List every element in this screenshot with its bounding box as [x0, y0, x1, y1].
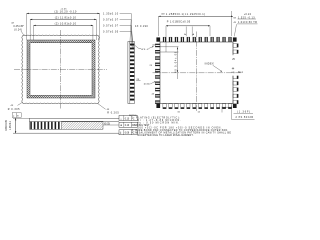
top view: ceramic body outline (scalloped castellations): [22, 35, 99, 104]
svg-text:WF-4: WF-4: [141, 49, 149, 51]
height dim 0.57±0.05: [103, 31, 134, 51]
svg-text:0.10: 0.10: [125, 125, 130, 127]
left side plating thickness callout: [144, 81, 156, 85]
side view top surface lines: [30, 118, 120, 129]
svg-text:No.1: No.1: [238, 72, 244, 74]
svg-text:0.57±0.05: 0.57±0.05: [103, 31, 119, 34]
dimension D2: [30, 16, 96, 40]
svg-text:4X 0.190: 4X 0.190: [135, 25, 148, 28]
dimension D1 (body width 10.20): [27, 8, 100, 40]
svg-text:0.57±0.07: 0.57±0.07: [103, 25, 119, 28]
interior extension lines: [160, 47, 179, 52]
left side pin number labels: [150, 44, 156, 95]
right terminals x10: [233, 44, 238, 104]
pitch ticks at pins: [185, 27, 194, 37]
svg-text:(1.36F): (1.36F): [237, 111, 251, 114]
top view centerlines: [14, 30, 107, 109]
corner metallization tabs: [156, 37, 236, 108]
label mask over right terminals: [231, 55, 248, 75]
feature control frame 2: [119, 122, 137, 127]
svg-text:0.08: 0.08: [125, 133, 130, 135]
svg-text:P 1.01BSC±0.05: P 1.01BSC±0.05: [167, 21, 191, 24]
side view molded body hatch: [62, 122, 104, 130]
bottom-right corner radius label: [98, 104, 120, 115]
svg-text:(2) 10.81±0.10: (2) 10.81±0.10: [55, 22, 77, 26]
feature control frame 1: [119, 116, 137, 121]
side section (vertical strip): [128, 42, 134, 104]
svg-text:1.525 -0.13: 1.525 -0.13: [238, 16, 255, 19]
svg-text:⌓: ⌓: [120, 117, 122, 120]
svg-text:R 0.305: R 0.305: [8, 108, 20, 111]
left terminals x10: [155, 44, 160, 104]
strip side label 2X: [136, 79, 140, 81]
svg-text:2 P0.50±2R: 2 P0.50±2R: [236, 116, 254, 119]
side height dimension: [5, 118, 30, 133]
svg-text:(2) 10.20 -0.10: (2) 10.20 -0.10: [54, 10, 76, 14]
svg-text:INDEX: INDEX: [205, 62, 214, 65]
top view: metallized seal ring (hatched band): [27, 40, 95, 98]
svg-text:4X 5.04±.05: 4X 5.04±.05: [174, 51, 177, 73]
INDEX label: [205, 62, 223, 72]
svg-text:0.10: 0.10: [125, 118, 130, 120]
svg-text:⊕: ⊕: [120, 124, 122, 127]
terminal finish callout w/ arrow: [135, 46, 154, 52]
top dim row 2: pitch BSC: [166, 21, 210, 53]
bottom pin number labels: [177, 111, 200, 113]
standoff note (0.05): [103, 124, 119, 126]
bottom view centerlines: [153, 32, 242, 112]
height dim 0.57±0.07: [103, 25, 133, 49]
height dim 1.35±0.10: [103, 13, 132, 45]
svg-text:1.35±0.1: 1.35±0.1: [9, 120, 12, 130]
svg-text:0.57±0.07: 0.57±0.07: [103, 19, 119, 22]
svg-text:ACCEPTED DUE TO LASER MISALIGN: ACCEPTED DUE TO LASER MISALIGNMENT.: [138, 134, 194, 137]
svg-text:(2) 11.81±0.10: (2) 11.81±0.10: [55, 16, 77, 20]
side view lead sections: [30, 122, 59, 130]
top dim row 1: 44X lead width: [159, 11, 234, 36]
svg-text:0.85±0.05: 0.85±0.05: [5, 120, 8, 131]
dimension D3: [34, 22, 93, 40]
terminal thickness label: [135, 25, 148, 28]
bottom view: body outline: [160, 42, 233, 104]
bottom terminals x12: [163, 104, 232, 109]
height dim 0.57±0.07: [103, 19, 132, 47]
svg-text:R 0.205: R 0.205: [107, 112, 119, 115]
svg-text:(0.16): (0.16): [144, 84, 150, 86]
seating plane line C: [13, 132, 119, 134]
svg-text:∥: ∥: [120, 132, 121, 135]
svg-text:(0.05): (0.05): [104, 124, 110, 126]
top-right stacked labels: [234, 14, 258, 36]
feature control frame 3: [119, 130, 137, 135]
svg-text:44): 44): [231, 72, 234, 74]
svg-text:1.35±0.10: 1.35±0.10: [103, 13, 119, 16]
bottom-right corner dims: [222, 106, 255, 120]
svg-text:1.2585±0.1(×1.1925±0.1): 1.2585±0.1(×1.1925±0.1): [166, 13, 206, 16]
interior vertical dimension 4X 5.04: [174, 47, 178, 79]
top terminals x12: [163, 37, 232, 42]
svg-text:(0.24): (0.24): [14, 28, 22, 31]
notes block: [129, 115, 231, 137]
right side pin number labels: [231, 59, 243, 74]
bottom-left corner radius label: [8, 102, 22, 117]
corner chamfer label 0.45x45 (0.24): [11, 22, 24, 36]
